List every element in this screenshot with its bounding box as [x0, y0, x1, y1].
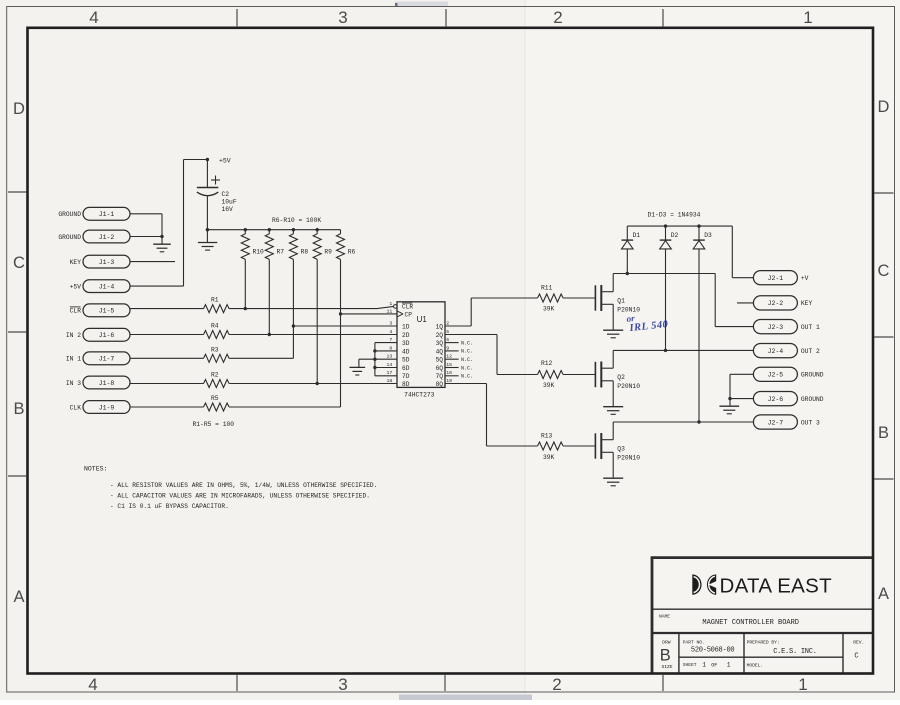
resistor R13 — [538, 442, 596, 450]
svg-text:4: 4 — [89, 8, 98, 27]
svg-text:N.C.: N.C. — [461, 365, 473, 371]
svg-text:R9: R9 — [324, 249, 332, 256]
wire J2-2 KEY stub — [737, 302, 753, 304]
svg-text:C.E.S. INC.: C.E.S. INC. — [773, 648, 816, 656]
ground Q2 source — [603, 407, 623, 415]
wire Q1 drain rail to J2-3 — [613, 274, 753, 327]
connector pin J2-1 — [753, 271, 808, 285]
svg-text:1Q: 1Q — [436, 323, 444, 330]
svg-text:Q3: Q3 — [617, 445, 625, 452]
svg-text:10uF: 10uF — [222, 198, 237, 205]
svg-text:B: B — [878, 424, 889, 442]
svg-text:N.C.: N.C. — [461, 340, 473, 346]
U1 pin 1 CLR bubble — [394, 305, 398, 309]
node R7/IN2 — [268, 333, 271, 336]
svg-text:R1-R5 = 100: R1-R5 = 100 — [193, 421, 235, 428]
svg-text:16V: 16V — [222, 206, 234, 213]
svg-text:IN 1: IN 1 — [66, 356, 81, 363]
wire 1Q to R11 — [445, 298, 538, 326]
wire Q3 drain rail to J2-7 — [613, 421, 753, 423]
svg-text:NAME: NAME — [659, 613, 670, 619]
svg-text:J2-6: J2-6 — [768, 396, 784, 403]
svg-text:2: 2 — [552, 675, 561, 694]
svg-text:R8: R8 — [301, 249, 309, 256]
svg-text:P20N10: P20N10 — [617, 306, 640, 313]
Data East logo mark — [692, 574, 717, 594]
connector pin J1-6 — [66, 328, 130, 341]
connector pin J2-5 — [753, 367, 823, 381]
transistor Q3 P20N10 — [595, 422, 640, 478]
notes text — [84, 466, 377, 511]
svg-text:1: 1 — [803, 8, 812, 27]
wire J1-2 to ground — [130, 235, 164, 244]
op IC U1 74HCT273 box — [397, 302, 445, 388]
node +5V — [206, 157, 231, 164]
svg-text:KEY: KEY — [70, 259, 82, 266]
svg-text:GROUND: GROUND — [58, 234, 81, 241]
resistor R2 (series 100) — [130, 372, 397, 388]
svg-text:R1: R1 — [211, 297, 219, 304]
connector pin J1-4 — [70, 280, 130, 293]
svg-text:- C1 IS 0.1 uF BYPASS CAPACITO: - C1 IS 0.1 uF BYPASS CAPACITOR. — [110, 503, 229, 510]
svg-text:J2-7: J2-7 — [768, 419, 784, 426]
svg-text:1: 1 — [389, 301, 392, 307]
svg-text:R4: R4 — [211, 323, 219, 330]
wire J2-5 to ground — [730, 374, 753, 398]
transistor Q1 P20N10 — [595, 274, 640, 331]
svg-text:39K: 39K — [543, 454, 555, 461]
svg-text:520-5068-00: 520-5068-00 — [691, 647, 735, 655]
wire pulldown rail — [207, 229, 340, 231]
connector pin J1-1 — [58, 207, 130, 220]
svg-text:OUT 1: OUT 1 — [801, 324, 820, 331]
svg-text:CP: CP — [405, 311, 413, 318]
svg-text:N.C.: N.C. — [461, 357, 473, 363]
svg-text:J1-7: J1-7 — [99, 356, 115, 363]
svg-text:J2-2: J2-2 — [768, 300, 784, 307]
diode D3 1N4934 — [693, 226, 712, 422]
svg-text:P20N10: P20N10 — [617, 454, 640, 461]
svg-text:1D: 1D — [402, 323, 410, 330]
U1 left pin numbers and labels — [387, 301, 414, 388]
svg-text:7D: 7D — [402, 373, 410, 380]
svg-text:R12: R12 — [541, 360, 553, 367]
svg-text:17: 17 — [387, 370, 393, 376]
svg-text:GROUND: GROUND — [801, 396, 824, 403]
svg-text:J1-9: J1-9 — [99, 404, 115, 411]
wire R1 to U1 pin 1 — [377, 306, 394, 308]
connector pin J1-3 — [70, 255, 130, 268]
node rail/D3 — [697, 224, 700, 227]
svg-text:D: D — [13, 100, 25, 118]
svg-text:R13: R13 — [541, 432, 553, 439]
connector pin J1-9 — [70, 401, 130, 414]
resistor R8 (pulldown 100K) — [289, 228, 308, 326]
svg-text:Q2: Q2 — [617, 374, 625, 381]
svg-text:5D: 5D — [402, 357, 410, 364]
svg-text:B: B — [13, 400, 24, 418]
svg-text:11: 11 — [387, 308, 393, 314]
wire J2-6 to ground — [728, 397, 753, 406]
connector pin J2-4 — [753, 344, 820, 358]
wire riser R8 column to pin 3 (from R3 row) — [292, 326, 294, 358]
wire to ground below C2 — [206, 230, 208, 243]
svg-text:- ALL CAPACITOR VALUES ARE IN: - ALL CAPACITOR VALUES ARE IN MICROFARAD… — [110, 493, 370, 500]
svg-text:74HCT273: 74HCT273 — [404, 392, 434, 399]
svg-text:A: A — [13, 588, 24, 606]
svg-text:4: 4 — [389, 329, 392, 335]
ground unused inputs — [349, 367, 365, 375]
svg-text:8Q: 8Q — [436, 381, 444, 388]
diode D1 1N4934 — [622, 226, 641, 273]
U1 pin 11 clock chevron — [397, 311, 403, 317]
diode D2 1N4934 — [660, 226, 679, 350]
connector pin J1-8 — [66, 376, 130, 389]
svg-text:CLK: CLK — [70, 404, 82, 411]
svg-text:J2-4: J2-4 — [768, 348, 784, 355]
svg-text:C: C — [854, 652, 858, 660]
svg-text:3Q: 3Q — [436, 340, 444, 347]
resistor R7 (pulldown 100K) — [265, 228, 284, 335]
svg-text:GROUND: GROUND — [801, 372, 824, 379]
svg-text:D1: D1 — [633, 232, 641, 239]
ground Q3 source — [603, 478, 623, 486]
wire Q2 drain rail to J2-4 — [613, 349, 753, 351]
ground J1 — [153, 244, 171, 252]
resistor R9 (pulldown 100K) — [313, 228, 332, 384]
svg-text:4D: 4D — [402, 348, 410, 355]
resistor R6 (pulldown 100K) — [337, 230, 356, 314]
svg-text:MODEL.: MODEL. — [747, 662, 764, 668]
svg-text:J2-1: J2-1 — [768, 275, 784, 282]
svg-text:U1: U1 — [417, 315, 428, 324]
svg-text:18: 18 — [387, 378, 393, 384]
wire pin 11 — [341, 313, 398, 315]
svg-text:GROUND: GROUND — [58, 211, 81, 218]
svg-text:J2-5: J2-5 — [768, 372, 784, 379]
svg-text:3: 3 — [389, 320, 392, 326]
svg-text:+V: +V — [801, 275, 809, 282]
node R10/CLR — [244, 307, 247, 310]
resistor R11 — [538, 294, 596, 302]
svg-text:J1-1: J1-1 — [99, 211, 115, 218]
handwritten note or IRL 540 — [626, 310, 669, 335]
svg-text:J1-3: J1-3 — [99, 259, 115, 266]
ground C2 — [198, 243, 217, 251]
svg-text:+5V: +5V — [70, 283, 82, 290]
svg-text:J1-2: J1-2 — [99, 234, 115, 241]
node D1/Q1 drain — [626, 272, 629, 275]
wire riser R6 column to pin 11 (from R5 row) — [340, 314, 342, 407]
svg-text:3D: 3D — [402, 340, 410, 347]
U1 right pin numbers and labels — [436, 320, 453, 388]
resistor R10 (pulldown 100K) — [241, 228, 264, 309]
svg-text:8: 8 — [389, 345, 392, 351]
svg-text:OUT 2: OUT 2 — [801, 348, 820, 355]
node R8/pin3 — [292, 324, 295, 327]
svg-text:14: 14 — [387, 362, 393, 368]
svg-text:CLR: CLR — [70, 308, 82, 315]
node D2/Q2 drain — [664, 349, 667, 352]
svg-text:R6-R10 = 100K: R6-R10 = 100K — [272, 217, 321, 224]
svg-text:1: 1 — [702, 661, 706, 668]
svg-text:J1-5: J1-5 — [99, 308, 115, 315]
svg-text:IN 3: IN 3 — [66, 380, 81, 387]
ground Q1 source — [603, 330, 623, 338]
svg-text:R10: R10 — [253, 249, 265, 256]
svg-text:R11: R11 — [541, 284, 553, 291]
svg-text:6D: 6D — [402, 365, 410, 372]
svg-text:N.C.: N.C. — [461, 349, 473, 355]
svg-text:D2: D2 — [671, 232, 679, 239]
svg-text:R2: R2 — [211, 372, 219, 379]
resistor R5 (series 100) — [130, 395, 341, 411]
svg-text:R5: R5 — [211, 395, 219, 402]
node R9/IN3 — [316, 382, 319, 385]
svg-text:39K: 39K — [543, 305, 555, 312]
connector pin J2-7 — [753, 415, 820, 429]
wire J1-3 KEY stub — [130, 261, 175, 263]
svg-text:39K: 39K — [543, 382, 555, 389]
svg-text:+5V: +5V — [219, 157, 231, 164]
svg-text:A: A — [878, 585, 889, 603]
svg-text:C: C — [878, 262, 890, 280]
svg-text:SIZE: SIZE — [662, 664, 673, 670]
svg-text:1: 1 — [727, 661, 731, 668]
connector pin J1-7 — [66, 352, 130, 365]
svg-text:8D: 8D — [402, 381, 410, 388]
svg-text:N.C.: N.C. — [461, 374, 473, 380]
svg-text:R3: R3 — [211, 346, 219, 353]
node R6/pin11 — [339, 312, 342, 315]
svg-text:D: D — [878, 98, 890, 116]
U1 N.C. stubs — [445, 340, 473, 379]
svg-text:IN 2: IN 2 — [66, 332, 81, 339]
svg-text:R6: R6 — [348, 249, 356, 256]
svg-text:DATA EAST: DATA EAST — [720, 575, 833, 598]
connector pin J1-5 — [70, 304, 130, 317]
transistor Q2 P20N10 — [595, 350, 640, 406]
svg-text:MAGNET CONTROLLER BOARD: MAGNET CONTROLLER BOARD — [702, 619, 799, 627]
svg-text:CLR: CLR — [402, 303, 413, 310]
capacitor C2 — [197, 160, 237, 230]
wire unused input bus — [359, 343, 397, 376]
node rail/D2 — [664, 224, 667, 227]
svg-text:KEY: KEY — [801, 300, 813, 307]
svg-text:NOTES:: NOTES: — [84, 466, 107, 473]
svg-text:J2-3: J2-3 — [768, 324, 784, 331]
ground J2 — [719, 406, 739, 414]
svg-text:D1-D3 = 1N4934: D1-D3 = 1N4934 — [648, 211, 701, 218]
svg-text:PART NO.: PART NO. — [683, 640, 705, 646]
svg-text:J1-4: J1-4 — [99, 283, 115, 290]
wire 8Q to R13 — [445, 384, 538, 447]
svg-text:P20N10: P20N10 — [617, 383, 640, 390]
node C2/ground rail junction — [206, 228, 209, 231]
resistor R12 — [538, 371, 596, 379]
svg-text:OF: OF — [711, 662, 717, 668]
svg-text:5Q: 5Q — [436, 357, 444, 364]
svg-text:13: 13 — [387, 354, 393, 360]
wire pin 3 — [293, 325, 397, 327]
svg-text:7Q: 7Q — [436, 373, 444, 380]
svg-text:4: 4 — [88, 675, 97, 694]
connector pin J2-2 — [753, 296, 812, 310]
svg-text:3: 3 — [338, 8, 347, 27]
connector pin J2-6 — [753, 392, 823, 406]
resistor R4 (series 100) — [130, 323, 397, 339]
svg-text:REV.: REV. — [853, 640, 864, 646]
resistor R1 (series 100) — [130, 297, 377, 313]
wire 2Q to R12 — [445, 335, 538, 375]
svg-text:C2: C2 — [222, 191, 230, 198]
svg-text:7: 7 — [389, 337, 392, 343]
svg-text:2: 2 — [553, 8, 562, 27]
svg-text:J1-8: J1-8 — [99, 380, 115, 387]
svg-text:B: B — [660, 647, 671, 665]
svg-text:- ALL RESISTOR VALUES ARE IN O: - ALL RESISTOR VALUES ARE IN OHMS, 5%, 1… — [110, 482, 377, 489]
svg-text:J1-6: J1-6 — [99, 332, 115, 339]
svg-text:1: 1 — [798, 675, 807, 694]
svg-text:3: 3 — [338, 675, 347, 694]
connector pin J1-2 — [58, 230, 130, 243]
title block frame — [651, 558, 873, 673]
svg-text:D3: D3 — [704, 232, 712, 239]
svg-text:Q1: Q1 — [617, 297, 625, 304]
resistor R3 (series 100) — [130, 346, 293, 362]
connector pin J2-3 — [753, 320, 820, 334]
svg-text:4Q: 4Q — [436, 348, 444, 355]
svg-text:C: C — [13, 254, 25, 272]
svg-text:R7: R7 — [277, 249, 285, 256]
wire diode cathode rail to J2-1 — [627, 226, 753, 278]
svg-text:SHEET: SHEET — [683, 662, 697, 668]
wire J1-4 to +5V rail — [130, 160, 207, 287]
svg-text:2D: 2D — [402, 332, 410, 339]
wire J1-1 to ground — [130, 214, 162, 237]
svg-text:PREPARED BY:: PREPARED BY: — [747, 640, 780, 646]
svg-text:6Q: 6Q — [436, 365, 444, 372]
node D3/Q3 drain — [697, 420, 700, 423]
svg-text:2Q: 2Q — [436, 332, 444, 339]
svg-text:OUT 3: OUT 3 — [801, 419, 820, 426]
svg-text:DRW: DRW — [662, 640, 671, 646]
